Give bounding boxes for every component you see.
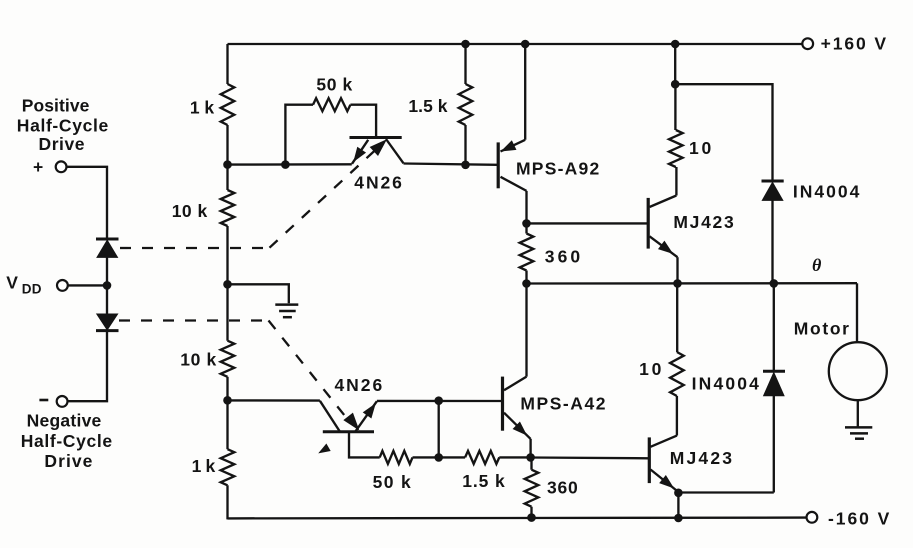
terminal + input — [56, 161, 67, 172]
light arrow into 4N26 upper — [371, 140, 386, 155]
label: 10 k (upper) — [172, 201, 208, 221]
wire: MJ423 collector up — [675, 167, 677, 196]
wire: MPS-A42 emitter drop — [529, 439, 531, 458]
resistor 50 k (lower) — [380, 451, 413, 464]
label: 10 k (lower) — [180, 350, 216, 370]
wire: theta to motor — [856, 283, 858, 342]
node: 50k left junction — [282, 161, 290, 169]
resistor 50 k (upper) — [313, 98, 350, 111]
svg-text:MPS-A92: MPS-A92 — [516, 159, 600, 179]
label: - polarity — [39, 399, 48, 402]
label: 1 k (lower) — [192, 456, 216, 476]
wire: 1k lower to bottom rail — [226, 485, 228, 519]
opto-transistor U1 4N26 (upper) — [350, 138, 404, 164]
svg-text:1.5 k: 1.5 k — [408, 96, 447, 116]
wire: theta node down to MPS-A42 collector — [525, 284, 527, 377]
wire: emitter node to rail — [677, 493, 679, 518]
diode LED2 4N26 emitter (lower, cathode down) — [96, 314, 119, 331]
svg-text:IN4004: IN4004 — [793, 182, 860, 202]
wire: diode 2 down — [773, 396, 775, 493]
wire: base of MJ423 upper — [527, 222, 648, 224]
svg-text:1 k: 1 k — [192, 456, 216, 476]
wire: MPS-A92 collector down — [525, 191, 527, 224]
wire: rail drop right — [674, 44, 676, 84]
wire: 4N26 lower base lead — [349, 432, 380, 458]
diode LED1 4N26 emitter (upper, cathode up) — [96, 239, 119, 257]
label: -160 V — [828, 508, 890, 528]
wire: 50k to 4N26 collector — [350, 105, 376, 138]
node A: 1k/10k junction — [224, 161, 232, 169]
node: theta/MJ423 emitter — [674, 280, 682, 288]
wire: node A to 4N26 upper base — [228, 163, 352, 166]
wire: motor to ground — [857, 400, 859, 427]
wire: +160 V top rail — [228, 43, 803, 45]
wire: 4N26 lower emitter to MPS-A42 base — [377, 400, 501, 402]
wire: MJ423 lower collector up — [676, 396, 678, 436]
wire: LED2 to - terminal — [68, 331, 107, 402]
light arrow into 4N26 lower — [344, 413, 358, 429]
svg-text:10: 10 — [689, 138, 712, 158]
opto-transistor U2 4N26 (lower) — [320, 401, 377, 432]
wire: node A to R 10k upper — [226, 165, 228, 190]
dashed light path from LED2 (horizontal) — [119, 319, 268, 321]
transistor Q4 MJ423 (lower) — [649, 436, 678, 492]
node: 50k/1.5k junction — [435, 454, 443, 462]
resistor 1 k (lower) — [221, 449, 235, 485]
wire: LED1 to VDD node — [106, 257, 108, 285]
node: right branch split — [671, 80, 679, 88]
node: theta/360 — [523, 280, 531, 288]
svg-text:4N26: 4N26 — [335, 375, 383, 395]
label: Positive Half-Cycle Drive — [17, 96, 109, 155]
svg-text:-160 V: -160 V — [828, 508, 890, 528]
svg-text:V: V — [6, 272, 18, 292]
wire: node to R 360 lower — [530, 457, 532, 469]
svg-text:50 k: 50 k — [316, 75, 352, 95]
svg-text:10 k: 10 k — [180, 350, 216, 370]
node: 360/rail — [528, 514, 536, 522]
svg-text:IN4004: IN4004 — [692, 374, 760, 394]
svg-text:4N26: 4N26 — [354, 172, 402, 192]
wire: junction drop — [438, 401, 440, 458]
wire: 1k to node A — [226, 125, 228, 165]
svg-text:360: 360 — [545, 246, 581, 266]
wire: VDD node to LED2 — [106, 285, 108, 314]
motor M1 — [829, 342, 887, 400]
svg-text:Positive: Positive — [22, 96, 90, 116]
terminal +160 V — [802, 38, 813, 49]
label: 1.5 k (lower) — [462, 471, 505, 491]
label: 1 k (upper) — [190, 98, 215, 118]
resistor 1 k (upper) — [221, 84, 235, 125]
node: rail junction right — [675, 514, 683, 522]
label: 360 (upper) — [545, 246, 581, 266]
svg-text:10 k: 10 k — [172, 201, 208, 221]
label: MJ423 (lower) — [670, 448, 733, 468]
dashed light path from LED1 (horizontal) — [120, 247, 269, 249]
wire: ground tap — [228, 284, 289, 303]
node: top rail / MPS-A92 emitter — [521, 40, 529, 48]
label: Motor — [794, 318, 850, 338]
wire: 4N26 emitter to MPS-A92 base — [404, 164, 498, 165]
svg-text:Negative: Negative — [27, 410, 102, 430]
wire: node B to R 1k lower — [226, 400, 228, 449]
wire: -160 V bottom rail — [228, 516, 807, 519]
label: 4N26 (lower) — [335, 375, 383, 395]
svg-text:360: 360 — [547, 478, 578, 498]
resistor 360 (lower) — [525, 470, 539, 507]
label: IN4004 (upper) — [793, 182, 860, 202]
wire: to diode 1 top — [675, 84, 772, 181]
resistor 1.5 k (lower) — [465, 451, 499, 464]
svg-text:10: 10 — [639, 359, 662, 379]
wire: 1.5k to emitter node — [499, 456, 530, 458]
svg-text:Drive: Drive — [44, 451, 92, 471]
label: theta — [812, 255, 822, 275]
wire: diode 1 to theta line — [771, 200, 773, 283]
label: 50 k (lower) — [373, 472, 412, 492]
wire: 50k loop left — [285, 105, 313, 165]
node: VDD junction — [103, 282, 111, 290]
wire: 10 upper lead — [674, 84, 676, 130]
wire: 360 lower to rail — [530, 507, 532, 519]
resistor 360 (upper) — [520, 234, 534, 271]
terminal - input — [57, 396, 68, 407]
node: MPS-A92 collector / MJ423 base — [523, 220, 531, 228]
label: +160 V — [821, 34, 887, 54]
resistor 10 (upper) — [669, 130, 683, 167]
terminal VDD — [57, 280, 68, 291]
dashed light path to 4N26 lower (diagonal) — [269, 321, 350, 422]
svg-text:MJ423: MJ423 — [670, 448, 733, 468]
node: MPS-A92 base junction — [462, 161, 470, 169]
node: top rail / 1.5k — [462, 40, 470, 48]
resistor 1.5 k (upper) — [459, 84, 473, 125]
wire: 10k to ground node — [226, 226, 228, 284]
wire: 50k to 1.5k — [413, 456, 466, 458]
label: + polarity — [33, 157, 44, 177]
diode D1 IN4004 (upper) — [762, 181, 784, 200]
wire: 10k lower to node B — [226, 377, 228, 401]
wire: theta down to 10 lower — [676, 283, 678, 352]
svg-text:1 k: 1 k — [190, 98, 215, 118]
svg-text:1.5 k: 1.5 k — [462, 471, 505, 491]
wire: 360 to theta node — [525, 271, 527, 284]
svg-text:+: + — [33, 157, 44, 177]
svg-text:Half-Cycle: Half-Cycle — [21, 431, 113, 451]
terminal -160 V — [807, 512, 818, 523]
label: 4N26 (upper) — [354, 172, 402, 192]
wire: node B to 4N26 lower collector — [228, 399, 320, 402]
small stray arrow mark — [320, 444, 330, 452]
wire: rail to R 1k upper — [226, 44, 228, 84]
wire: MJ423 upper emitter drop — [676, 257, 678, 283]
svg-text:Drive: Drive — [39, 134, 85, 154]
node: MJ423 lower emitter junction — [675, 489, 683, 497]
svg-text:θ: θ — [812, 255, 822, 275]
wire: theta down to diode 2 — [773, 283, 775, 370]
label: Negative Half-Cycle Drive — [21, 410, 113, 471]
transistor Q1 MPS-A92 — [498, 140, 526, 191]
dashed light path to 4N26 upper (diagonal) — [270, 149, 378, 248]
label: 10 (upper) — [689, 138, 712, 158]
label: V DD — [6, 272, 42, 296]
node: MPS-A42 emitter junction — [527, 454, 535, 462]
ground (bias ladder) — [275, 305, 298, 318]
resistor 10 k (lower) — [221, 341, 235, 377]
label: MJ423 (upper) — [673, 212, 734, 232]
svg-text:DD: DD — [22, 282, 42, 297]
wire: ground node to R 10k lower — [226, 284, 228, 340]
label: IN4004 (lower) — [692, 374, 760, 394]
resistor 10 k (upper) — [221, 190, 235, 226]
wire: 1.5k to base node — [464, 125, 466, 165]
ground (motor) — [845, 427, 872, 438]
label: MPS-A92 — [516, 159, 600, 179]
svg-text:50 k: 50 k — [373, 472, 412, 492]
wire: theta output line — [527, 282, 858, 285]
wire: rail to MPS-A92 emitter — [524, 44, 526, 140]
wire: node to R 360 upper — [525, 223, 527, 233]
wire: VDD terminal to node — [68, 284, 104, 286]
node: top rail / right branch — [671, 40, 679, 48]
label: 1.5 k (upper) — [408, 96, 447, 116]
node: theta/diode — [770, 280, 778, 288]
label: MPS-A42 — [520, 393, 605, 413]
svg-text:Half-Cycle: Half-Cycle — [17, 115, 109, 135]
wire: base of MJ423 lower — [531, 456, 648, 459]
node B: 10k/1k junction — [224, 397, 232, 405]
wire: rail to R 1.5k — [464, 44, 466, 84]
svg-text:Motor: Motor — [794, 318, 850, 338]
label: 10 (lower) — [639, 359, 662, 379]
label: 50 k (upper) — [316, 75, 352, 95]
label: 360 (lower) — [547, 478, 578, 498]
node: ground tap junction — [224, 281, 232, 289]
node: lower base wire junction — [435, 397, 443, 405]
transistor Q3 MJ423 (upper) — [648, 196, 677, 258]
wire: + input to LED anode — [67, 167, 107, 239]
resistor 10 (lower) — [670, 352, 684, 396]
transistor Q2 MPS-A42 — [503, 377, 531, 439]
wire: lower horizontal to emitter node — [678, 491, 773, 493]
svg-text:+160 V: +160 V — [821, 34, 887, 54]
svg-text:MJ423: MJ423 — [673, 212, 734, 232]
svg-text:MPS-A42: MPS-A42 — [520, 393, 605, 413]
diode D2 IN4004 (lower) — [763, 371, 785, 396]
